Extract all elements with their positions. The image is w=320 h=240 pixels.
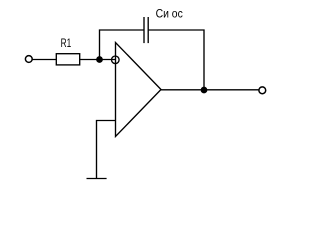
wire input to R1 [32,59,56,61]
op-amp inverting input bubble [112,56,120,64]
svg-text:R1: R1 [61,36,72,50]
op-amp U1 triangle [116,43,162,137]
ground [87,178,107,180]
node IN terminal [25,56,32,63]
node junction B (output/feedback) [201,87,206,92]
wire capacitor to output node [148,30,204,90]
wire non-inverting input to ground [97,121,116,179]
node OUT terminal [259,87,266,94]
capacitor Cи ос [144,17,148,43]
wire R1 to op-amp inverting input [80,59,116,61]
node junction A (input/feedback) [97,57,102,62]
wire feedback up and across [100,30,145,60]
resistor R1 [56,54,79,65]
wire op-amp output [161,89,259,91]
svg-text:Си ос: Си ос [156,7,183,21]
